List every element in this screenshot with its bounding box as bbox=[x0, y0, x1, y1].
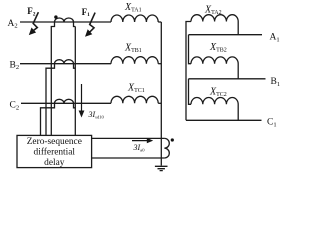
wire zigzag A1 to XTB2 bbox=[189, 35, 192, 64]
fault F2 bolt bbox=[32, 12, 39, 32]
svg-text:delay: delay bbox=[44, 158, 65, 168]
svg-text:A1: A1 bbox=[270, 33, 280, 44]
wire C-row stub to right bus bbox=[158, 102, 161, 104]
svg-text:XTB1: XTB1 bbox=[124, 43, 142, 55]
wire right vertical bus to ground bbox=[160, 22, 162, 166]
svg-text:XTC1: XTC1 bbox=[127, 83, 145, 95]
svg-text:XTB2: XTB2 bbox=[209, 42, 227, 54]
svg-text:XTA1: XTA1 bbox=[124, 2, 142, 14]
wire common right leg to box bbox=[74, 27, 76, 136]
node B1 line bbox=[189, 78, 266, 80]
svg-text:3Ia0: 3Ia0 bbox=[133, 143, 146, 153]
winding crown on B2 with jogged legs bbox=[46, 60, 75, 136]
inductor XTA2 bbox=[191, 15, 238, 35]
wire A-row stub to right bus bbox=[158, 21, 161, 23]
svg-text:XTA2: XTA2 bbox=[204, 4, 222, 16]
inductor XTC1 bbox=[111, 96, 158, 103]
wire B-row stub to right bus bbox=[158, 63, 161, 65]
svg-text:B2: B2 bbox=[10, 60, 20, 71]
zero-sequence differential delay box bbox=[17, 135, 92, 167]
node C2 phase line bbox=[21, 102, 111, 104]
svg-text:C1: C1 bbox=[267, 118, 277, 129]
inductor XTA1 bbox=[111, 15, 158, 22]
fault F2 arrowhead bbox=[29, 28, 36, 36]
polarity dot on output winding bbox=[171, 138, 174, 141]
svg-text:XTC2: XTC2 bbox=[209, 87, 227, 99]
wire zigzag B1 to XTC2 bbox=[189, 79, 192, 105]
wire output bottom bbox=[92, 157, 165, 159]
winding (CT primary crown) on A2 with legs bbox=[51, 18, 75, 136]
svg-text:F1: F1 bbox=[82, 7, 91, 18]
node A1 line bbox=[189, 34, 263, 36]
inductor XTB2 bbox=[191, 57, 238, 79]
winding crown on C2 with jogged legs bbox=[41, 99, 76, 135]
svg-text:differential: differential bbox=[34, 146, 76, 157]
svg-text:3Isd10: 3Isd10 bbox=[88, 110, 105, 120]
inductor XTC2 bbox=[191, 98, 238, 121]
right outer bus wire bbox=[186, 22, 191, 121]
fault F1 arrowhead bbox=[85, 29, 92, 37]
svg-text:B1: B1 bbox=[271, 77, 281, 88]
fault F1 bolt bbox=[89, 13, 96, 34]
current arrow 3Ia0 (right) bbox=[132, 138, 153, 143]
current arrow 3Isd10 (down) bbox=[79, 84, 85, 118]
node A2 phase line bbox=[20, 21, 111, 23]
svg-text:C2: C2 bbox=[10, 101, 20, 112]
inductor XTB1 bbox=[111, 57, 158, 64]
winding output transformer bbox=[164, 138, 169, 158]
node C1 line bbox=[186, 119, 262, 121]
ground bbox=[155, 166, 168, 170]
svg-text:Zero-sequence: Zero-sequence bbox=[27, 137, 82, 147]
svg-text:F2: F2 bbox=[27, 6, 36, 17]
node B2 phase line bbox=[20, 63, 111, 65]
wire output top bbox=[92, 137, 165, 139]
svg-text:A2: A2 bbox=[8, 19, 18, 30]
polarity dot on A2 winding bbox=[54, 15, 57, 18]
